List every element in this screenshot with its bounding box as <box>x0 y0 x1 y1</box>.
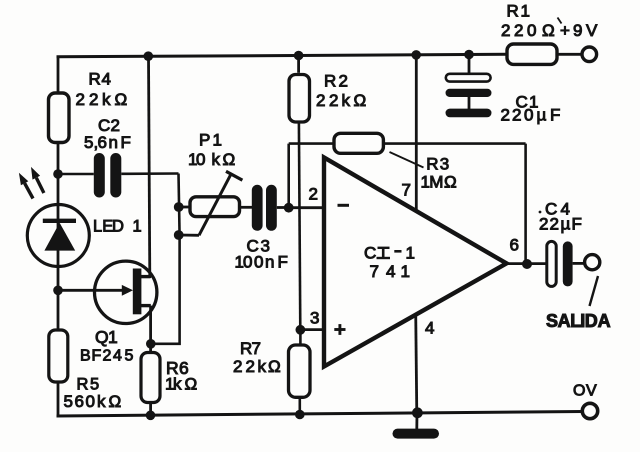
node K: bottom rail / ground junction <box>412 407 423 418</box>
wire feedback vertical at node H <box>287 144 290 208</box>
resistor R2 <box>289 55 366 122</box>
capacitor C3 <box>235 185 288 272</box>
wire pin7 vertical from rail <box>415 55 418 212</box>
wire R2 bottom long lead to pin3 node <box>299 123 300 330</box>
wire C4 to output terminal <box>573 262 585 265</box>
LED arrows (light rays) <box>19 167 44 199</box>
wire feedback vertical to output <box>524 144 527 264</box>
svg-text:R4: R4 <box>89 70 111 89</box>
svg-text:3: 3 <box>310 309 319 328</box>
capacitor C1 <box>446 55 561 125</box>
svg-text:10kΩ: 10kΩ <box>188 150 235 169</box>
svg-text:2: 2 <box>309 185 318 204</box>
svg-text:1MΩ: 1MΩ <box>421 172 457 191</box>
svg-text:560kΩ: 560kΩ <box>64 392 122 411</box>
svg-text:R2: R2 <box>324 72 348 91</box>
svg-text:R7: R7 <box>240 339 261 358</box>
svg-text:C: C <box>364 244 376 263</box>
node A: R4/C2/LED junction <box>53 169 63 179</box>
svg-text:1kΩ: 1kΩ <box>165 375 197 394</box>
wire pin4 vertical to bottom rail <box>416 312 417 415</box>
svg-text:SALIDA: SALIDA <box>546 311 611 331</box>
svg-text:22kΩ: 22kΩ <box>316 91 366 110</box>
svg-text:100nF: 100nF <box>235 253 288 272</box>
svg-text:220µF: 220µF <box>501 106 561 125</box>
svg-text:R1: R1 <box>507 2 530 21</box>
transistor Q1 BF245 <box>58 261 157 364</box>
wire output lead <box>504 262 547 265</box>
wire C2 right lead to corner <box>121 172 178 175</box>
resistor R1 <box>501 2 585 65</box>
node I: rail/R2 junction <box>294 51 304 61</box>
node J: rail/pin7 junction <box>411 50 421 60</box>
svg-text:BF245: BF245 <box>80 348 134 365</box>
capacitor C4 <box>539 200 582 287</box>
svg-text:22kΩ: 22kΩ <box>76 90 128 109</box>
svg-text:1: 1 <box>406 244 415 263</box>
svg-text:22kΩ: 22kΩ <box>233 357 281 376</box>
ground <box>393 413 440 439</box>
node F: P1 left terminal <box>174 202 184 212</box>
capacitor C2 <box>84 116 131 198</box>
wire left branch vertical (R4/LED/R5 chain) <box>57 56 60 418</box>
node H: inverting input node <box>284 203 294 213</box>
node SALIDA terminal <box>546 255 611 331</box>
svg-text:OV: OV <box>573 383 597 400</box>
svg-text:7: 7 <box>402 181 411 200</box>
svg-text:220Ω: 220Ω <box>501 21 555 40</box>
svg-text:741: 741 <box>370 262 410 281</box>
wire feedback horizontal left of R3 <box>289 142 334 145</box>
wire source vertical <box>149 306 152 344</box>
node +9V terminal <box>560 21 598 62</box>
wire bottom 0V rail <box>57 412 584 417</box>
node G: P1 wiper tie <box>174 230 184 240</box>
wire P1 to C3 <box>240 206 253 209</box>
node L: pin3 bias node <box>296 325 306 335</box>
node 0V terminal <box>573 383 598 419</box>
svg-text:LED 1: LED 1 <box>93 218 142 236</box>
wire pin3 lead into op-amp <box>300 328 325 331</box>
svg-text:+9V: +9V <box>560 21 598 40</box>
svg-text:4: 4 <box>425 319 434 338</box>
node E: R6 bottom rail junction <box>146 411 156 421</box>
node C: top rail / drain junction <box>144 51 154 61</box>
node N: output node <box>522 259 532 269</box>
resistor R5 <box>49 330 121 411</box>
resistor R4 <box>49 70 128 143</box>
wire C2 corner down to P1 <box>179 174 180 237</box>
node M: R7 bottom rail junction <box>295 410 305 420</box>
wire C3 to pin2 node <box>277 206 289 209</box>
resistor R3 <box>334 133 457 191</box>
LED D1 (LED 1) <box>27 205 141 267</box>
wire source to P1 branch <box>151 235 180 344</box>
svg-text:R5: R5 <box>77 376 100 394</box>
svg-text:Q1: Q1 <box>95 327 118 347</box>
svg-text:6: 6 <box>510 236 519 255</box>
svg-text:R3: R3 <box>426 154 449 173</box>
potentiometer P1 <box>179 131 243 236</box>
resistor R7 <box>233 330 310 415</box>
wire drain vertical from +9V rail <box>149 56 150 278</box>
svg-text:22µF: 22µF <box>539 215 582 234</box>
op-amp U1 (CI-1 741) <box>324 158 507 367</box>
resistor R6 <box>141 344 197 416</box>
node D: source/R6 junction <box>146 339 156 349</box>
node O: rail/C1 junction <box>464 50 474 60</box>
wire C2 left lead <box>58 173 94 176</box>
node B: gate junction below LED <box>53 286 63 296</box>
wire top +9V rail <box>57 54 509 57</box>
wire pin2 lead into op-amp <box>289 206 326 209</box>
wire feedback horizontal right of R3 <box>383 142 525 145</box>
